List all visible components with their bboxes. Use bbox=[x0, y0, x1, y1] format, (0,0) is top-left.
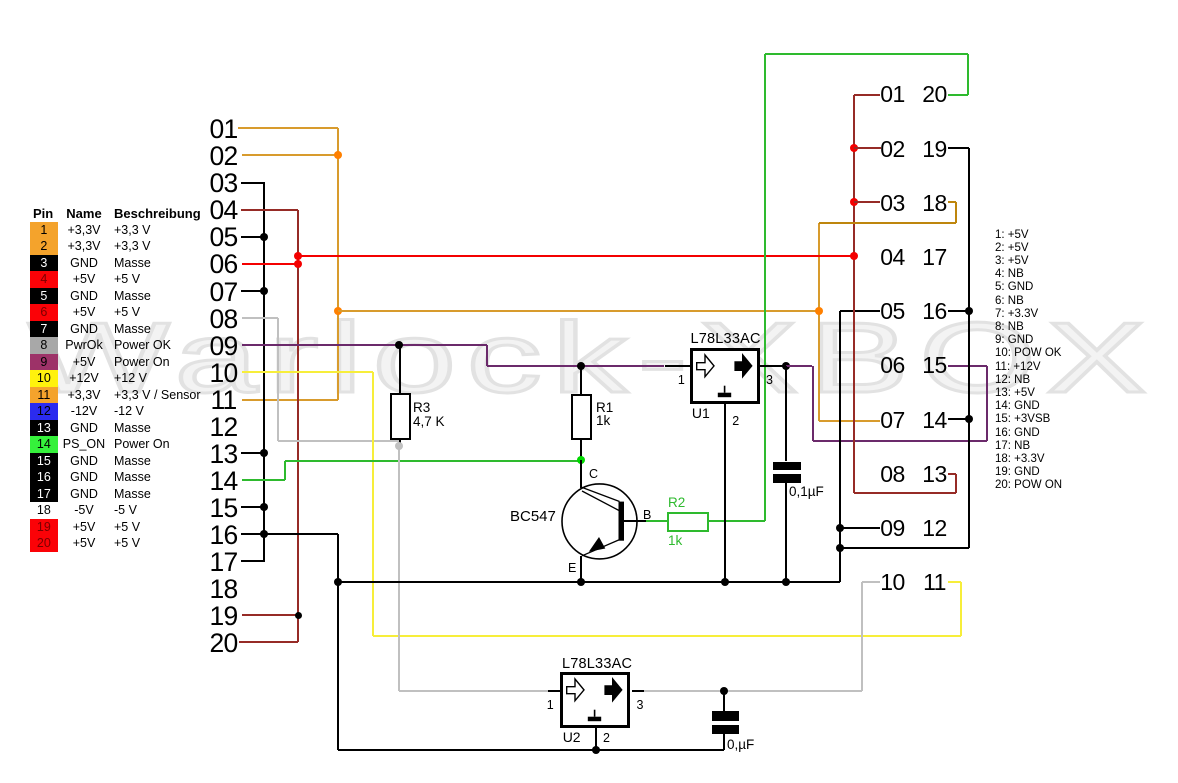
base to R2 bbox=[646, 520, 667, 522]
wire +3.3V vertical bbox=[337, 128, 339, 400]
pin table header bbox=[33, 206, 53, 221]
label U1 bbox=[692, 405, 710, 421]
wire pin18 drop bbox=[955, 202, 957, 222]
node U1 pin2 GND bbox=[721, 578, 729, 586]
wire right pin10 stub bbox=[862, 581, 880, 583]
wire pin04 +5V bbox=[241, 209, 298, 211]
junction pin16 GND bus bbox=[260, 530, 268, 538]
wire +5V to right connector bbox=[298, 255, 854, 257]
junction pin15 GND bbox=[260, 503, 268, 511]
wire +12V rise to pin11 bbox=[960, 582, 962, 636]
U2 pin2 lead bbox=[595, 728, 597, 750]
label R2 bbox=[668, 495, 685, 510]
wire pin20 +5V bbox=[239, 641, 298, 643]
wire GND drop bbox=[337, 534, 339, 750]
junction GND/pin09 bbox=[836, 524, 844, 532]
junction pin02 +3.3V bbox=[334, 151, 342, 159]
wire PwrOk drop bbox=[277, 318, 279, 441]
C2 bottom lead bbox=[723, 734, 725, 750]
wire PowerOn jog bbox=[486, 345, 488, 366]
label U2 L78L33AC bbox=[562, 656, 632, 672]
label E bbox=[568, 561, 576, 575]
wire pin02 +3.3V bbox=[242, 154, 338, 156]
R1 bottom lead bbox=[580, 440, 582, 460]
wire right pin16 GND bbox=[948, 310, 969, 312]
wire 3VSB rise bbox=[986, 366, 988, 441]
wire pin01 +3.3V bbox=[238, 127, 338, 129]
wire POW OK drop bbox=[861, 582, 863, 691]
wire +5V vertical bbox=[297, 210, 299, 643]
+5V riser right bbox=[853, 95, 855, 493]
U2 pin3 stub bbox=[632, 690, 644, 692]
wire 3VSB across bbox=[813, 440, 988, 442]
value C1 0,1uF bbox=[789, 484, 824, 499]
value R1 1k bbox=[596, 413, 610, 428]
wire PwrOk to U2 pin1 bbox=[399, 690, 549, 692]
wire +12V drop bbox=[372, 372, 374, 636]
left connector pins 01-20 bbox=[209, 114, 239, 145]
pin 3 U2 bbox=[637, 698, 644, 712]
label BC547 bbox=[510, 508, 556, 525]
wire right pin11 stub bbox=[948, 581, 961, 583]
wire right pin14 GND bbox=[948, 418, 969, 420]
junction pin05 GND bbox=[260, 233, 268, 241]
label R1 bbox=[596, 400, 613, 415]
wire PwrOk to U2 drop bbox=[398, 446, 400, 691]
wire pin13 GND bbox=[241, 452, 264, 454]
capacitor C1 bbox=[773, 462, 802, 470]
emitter lead bbox=[580, 556, 582, 582]
junction pin16 GND right bbox=[965, 307, 973, 315]
wire pin08 PwrOk bbox=[242, 317, 278, 319]
wire pin05 GND bbox=[241, 236, 264, 238]
GND rail to U2 bbox=[338, 749, 725, 751]
right pin legend bbox=[995, 229, 1062, 493]
C1 bottom lead bbox=[785, 483, 787, 582]
resistor R3 bbox=[390, 393, 412, 440]
C1 top lead bbox=[785, 366, 787, 462]
node C1 GND bbox=[782, 578, 790, 586]
wire PS_ON to collector bbox=[285, 460, 581, 462]
node R3/PwrOk bbox=[395, 442, 403, 450]
capacitor C2 bbox=[712, 711, 740, 721]
junction pin06 +5V bbox=[294, 260, 302, 268]
wire PowerOn to U1 bbox=[487, 365, 665, 367]
wire pin11 +3.3V sensor bbox=[242, 399, 338, 401]
value C2 0,uF bbox=[727, 737, 754, 752]
wire 3VSB from U1 bbox=[786, 365, 813, 367]
wire 3VSB jog down bbox=[812, 366, 814, 441]
op-amp U1 L78L33AC bbox=[690, 348, 760, 404]
wire pin03 GND bbox=[241, 182, 265, 184]
U1 pin3 stub bbox=[760, 365, 786, 367]
junction GND link bbox=[836, 544, 844, 552]
right connector pins bbox=[880, 81, 906, 108]
value R3 4,7K bbox=[413, 414, 445, 429]
GND rail middle bbox=[338, 581, 840, 583]
decor bbox=[28, 308, 1157, 408]
wire pin16 GND bbox=[241, 533, 338, 535]
wire pin15 GND bbox=[241, 506, 264, 508]
pin 2 U2 bbox=[603, 731, 610, 745]
wire pin06 +5V bbox=[242, 263, 298, 265]
wire pin19 +5V bbox=[242, 614, 298, 616]
wire pin09 PowerOn bbox=[242, 344, 487, 346]
wire right pin18 stub bbox=[948, 201, 956, 203]
U1 pin1 stub bbox=[665, 365, 691, 367]
pin 3 U1 bbox=[766, 373, 773, 387]
GND bus bbox=[263, 183, 265, 562]
junction GND node bbox=[334, 578, 342, 586]
wire +3.3V right drop bbox=[818, 223, 820, 421]
pin table rows bbox=[30, 222, 58, 239]
R1 top lead bbox=[580, 366, 582, 394]
node emitter/GND bbox=[577, 578, 585, 586]
wire right pin19 GND bbox=[948, 147, 969, 149]
wire right pin13 +5V bbox=[948, 473, 956, 475]
junction pin19 +5V bbox=[295, 612, 302, 619]
wire right pin03 +5V bbox=[854, 201, 880, 203]
resistor R1 bbox=[571, 394, 592, 441]
junction pin13 GND bbox=[260, 449, 268, 457]
label B bbox=[643, 508, 651, 522]
wire pin17 GND bbox=[241, 560, 265, 562]
wire GND link bbox=[840, 547, 969, 549]
junction +5V branch bbox=[294, 252, 302, 260]
label C bbox=[589, 467, 598, 481]
junction right pin03 bbox=[850, 198, 858, 206]
junction pin14 GND right bbox=[965, 415, 973, 423]
wire POW OK to U2 pin3 bbox=[644, 690, 862, 692]
wire R2 to POW ON bbox=[709, 520, 765, 522]
R3 top lead bbox=[399, 345, 401, 393]
wire PS_ON rise bbox=[284, 461, 286, 480]
wire POW ON down to right pin20 bbox=[967, 54, 969, 95]
GND riser far right bbox=[968, 148, 970, 548]
U2 pin1 stub bbox=[548, 690, 560, 692]
wire pin07 GND bbox=[241, 290, 264, 292]
U1 pin2 lead bbox=[724, 404, 726, 582]
wire +3.3V to right pin07 bbox=[819, 420, 880, 422]
junction +5V feed bbox=[850, 252, 858, 260]
wire POW ON rise bbox=[764, 54, 766, 520]
wire PwrOk jog bbox=[398, 441, 400, 446]
pin 2 U1 bbox=[732, 414, 739, 428]
wire +5V rise to pin13 bbox=[955, 474, 957, 494]
wire right pin02 +5V bbox=[854, 147, 881, 149]
op-amp U2 L78L33AC bbox=[560, 672, 630, 728]
GND riser right bbox=[839, 311, 841, 582]
wire +12V to right connector bbox=[373, 635, 962, 637]
wire +5V bottom bbox=[854, 492, 956, 494]
label U2 bbox=[563, 729, 581, 745]
base lead bbox=[623, 520, 646, 522]
wire right pin09 GND bbox=[840, 527, 880, 529]
label U1 L78L33AC bbox=[691, 331, 761, 347]
R3 bottom lead bbox=[399, 440, 401, 446]
label R3 bbox=[413, 400, 430, 415]
C2 top lead bbox=[723, 691, 725, 711]
wire pin14 PS_ON bbox=[242, 479, 285, 481]
node collector/PS_ON bbox=[577, 456, 585, 464]
node U2 out / C2 bbox=[720, 687, 728, 695]
junction +3.3V branch bbox=[334, 307, 342, 315]
wire pin18 to +3.3V bbox=[819, 222, 956, 224]
value R2 1k bbox=[668, 533, 682, 548]
wire +3.3V to right connector bbox=[338, 310, 819, 312]
wire right pin05 GND bbox=[840, 310, 880, 312]
wire PwrOk to R3 bbox=[278, 440, 399, 442]
node U2 pin2 GND bbox=[592, 746, 600, 754]
wire 3VSB to right pin15 bbox=[948, 365, 987, 367]
node R1/PowerOn bbox=[577, 362, 585, 370]
wire POW ON top bbox=[765, 53, 969, 55]
wire right pin20 stub bbox=[948, 94, 968, 96]
resistor R2 bbox=[667, 512, 709, 532]
transistor Q1 BC547 bbox=[555, 476, 650, 568]
node R3/PowerOn bbox=[395, 341, 403, 349]
junction right pin02 bbox=[850, 144, 858, 152]
wire pin10 +12V bbox=[242, 371, 373, 373]
junction pin07 GND bbox=[260, 287, 268, 295]
node U1 out / C1 bbox=[782, 362, 790, 370]
junction +3.3V right bbox=[815, 307, 823, 315]
collector lead bbox=[580, 460, 582, 488]
pin 1 U1 bbox=[678, 373, 685, 387]
wire right pin01 +5V bbox=[854, 94, 881, 96]
pin 1 U2 bbox=[547, 698, 554, 712]
